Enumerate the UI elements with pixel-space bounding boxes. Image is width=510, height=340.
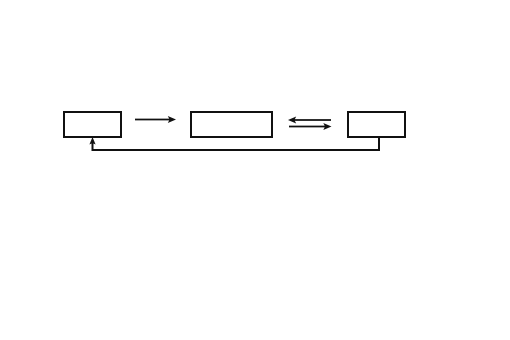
feedback wire from box 3 bottom to box 1 bottom	[89, 137, 379, 150]
box 2 (middle rectangle)	[191, 112, 272, 137]
box 1 (left rectangle)	[64, 112, 121, 137]
box 3 (right rectangle)	[348, 112, 405, 137]
arrow from box 1 to box 2	[135, 116, 176, 123]
equilibrium arrow (bottom, pointing right) between box 2 and box 3	[289, 123, 332, 130]
equilibrium arrow (top, pointing left) between box 2 and box 3	[288, 117, 331, 124]
